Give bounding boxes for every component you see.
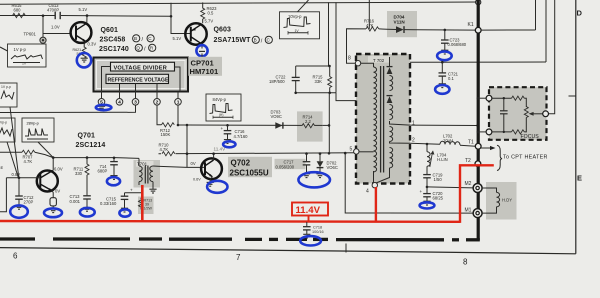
svg-text:4700P: 4700P [47,8,59,13]
svg-text:5.1V: 5.1V [173,36,182,41]
focus pin lower [486,129,492,135]
blue ellipse C721 ground [435,85,449,94]
capacitor C717 [275,159,306,169]
svg-text:2SC1055U: 2SC1055U [230,168,269,177]
svg-text:Q701: Q701 [78,133,96,140]
svg-text:D: D [577,9,583,18]
waveform box 28Vp-p [22,118,54,142]
T702 pin 5 lead [359,151,374,153]
resistor R716 [366,27,379,31]
svg-text:0.1: 0.1 [448,76,454,81]
wire pin3 to left edge [0,105,136,112]
label CP701 HM7101 [188,57,222,76]
resistor R714 [297,111,323,141]
svg-text:270P: 270P [24,199,34,204]
T702 pin 4 lead [373,171,375,183]
waveform box 10Vp-p [280,12,320,39]
svg-text:1: 1 [177,100,180,106]
svg-text:(H): (H) [219,113,223,117]
svg-text:M1: M1 [465,207,472,213]
T702 core [380,66,382,173]
wire top supply rail [0,2,478,4]
svg-text:H.DY: H.DY [502,197,512,202]
T702 pin 8 [355,61,360,66]
node Q601 collector tap [86,14,89,17]
red trace T702 pin4 drop [375,187,377,222]
bracket CPT heater [497,145,502,170]
T702 rectifier diode upper [387,66,393,68]
svg-text:5.7V: 5.7V [205,18,214,23]
blue ellipse Q701 emitter ground [44,208,62,217]
svg-text:B: B [134,36,137,41]
T702 secondary winding A [390,76,393,91]
pin 4 [116,99,123,106]
wire tap2 with L702 [410,142,440,145]
svg-text:0.5: 0.5 [208,11,214,16]
transistor Q601 [71,16,92,48]
transistor Q603 [185,23,206,48]
wire vertical from top into T702 area [335,2,337,93]
wire vertical feed at R716 [368,0,370,29]
svg-text:Q: Q [136,46,140,51]
svg-text:E: E [577,174,582,183]
svg-text:Q601: Q601 [101,27,119,34]
pin 1 [175,99,182,106]
resistor R621 [82,47,86,58]
svg-text:1/2W: 1/2W [144,207,153,211]
svg-text:E: E [1,165,4,170]
T702 pin 4 [372,183,377,188]
svg-text:T 702: T 702 [373,58,385,63]
wire pin stems [102,92,179,99]
blue circle Q601 emitter ground [77,53,91,67]
red trace T701 drop [141,185,144,221]
resistor R715 [329,66,331,77]
wire pointer from box to Q701 base [10,107,19,178]
thick ground bus vertical [477,0,480,240]
capacitor C613 [55,12,60,19]
svg-text:4.7K: 4.7K [24,159,33,164]
svg-text:10µH: 10µH [443,138,453,143]
wire M1 return [345,153,473,213]
T702 secondary winding D [390,148,393,168]
test point TP601 [40,37,46,43]
svg-text:4: 4 [366,188,369,194]
wire upper diode rail [187,124,297,126]
resistor R707 [0,151,22,153]
svg-text:4.7/160: 4.7/160 [234,134,249,139]
waveform box 84Vp-p [206,94,241,121]
svg-text:0.001: 0.001 [70,199,81,204]
wire vertical heater rail riser [545,0,547,62]
wire pin2 via R712 [157,105,162,125]
capacitor C718 [306,222,308,226]
blue ellipse pin5 ground [96,105,112,110]
capacitor C712 [18,178,20,196]
wire pin8 to D704 rail [347,29,367,63]
blue ellipse C715 ground [119,209,130,216]
waveform box small left y118 [0,118,15,142]
waveform box small left y83 [0,83,17,107]
blue ellipse Q702 emitter ground [207,181,227,193]
wire pointer 28Vp-p to collector node [38,142,53,157]
voltage divider block CP701 [94,58,189,92]
node junction TP601 tap [42,14,45,17]
wire bus to focus pin lower [480,131,486,133]
diode D703 [271,110,283,129]
svg-text:10Vp-p: 10Vp-p [288,14,302,19]
wire vertical above K1 wire [535,0,537,30]
svg-text:REFFERENCE VOLTAGE: REFFERENCE VOLTAGE [108,78,169,84]
svg-text:+: + [221,126,224,131]
pin 5 [98,99,105,106]
wire heater tap rail [410,61,546,63]
svg-text:K1: K1 [468,22,474,28]
wire network bottom [296,92,336,94]
svg-text:68/25: 68/25 [433,195,444,200]
red label box 11.4V [292,203,328,216]
wire TP601 vertical [42,16,44,37]
wire tap1 to bus [410,124,477,126]
svg-text:1V: 1V [295,29,300,33]
node M1 [473,209,482,218]
wire collector rail to T702 pin5 [159,153,357,154]
svg-text:6: 6 [13,252,18,261]
frame tick [569,95,576,97]
capacitor C720 [426,187,428,193]
capacitor C721 [441,61,444,64]
svg-text:8: 8 [463,258,468,267]
node T1 [475,143,481,149]
capacitor C713 [83,196,91,199]
svg-text:0V: 0V [191,161,196,166]
resistor R711 [86,156,89,159]
svg-text:0V: 0V [55,189,60,194]
transformer T701 [134,158,188,193]
wire junction column to pin5 rail [328,93,330,154]
transformer T702 flyback [356,54,410,184]
wire pointer second [7,142,18,178]
blue circle Q603 collector mark [199,50,205,52]
red stub 11.4V box [308,216,310,222]
diode D704 [387,11,417,37]
svg-text:11.4V: 11.4V [214,147,227,152]
svg-text:1V: 1V [22,61,27,65]
svg-text:M2: M2 [465,181,472,187]
svg-text:0.068/680: 0.068/680 [448,42,467,47]
transistor Q701 [37,158,58,198]
svg-text:680: 680 [14,8,22,13]
wire pin junction vertical to Q702 base [186,125,188,167]
wire K1 to right [481,29,536,31]
wire pointer from 10Vp-p box [298,0,309,12]
svg-text:VO6C: VO6C [327,165,338,170]
frame tick bottom [345,244,347,253]
wire Q603 base feed vertical [171,3,191,34]
blue ellipse C712 ground [10,205,28,217]
blue ellipse C714 ground [107,177,120,185]
transistor Q702 [201,152,222,182]
svg-text:Q603: Q603 [214,27,232,34]
T702 pin 5 [354,149,359,154]
svg-text:33K: 33K [315,79,323,84]
ground R621 [81,58,88,62]
svg-text:5: 5 [350,146,353,152]
capacitor C716 [226,124,229,127]
svg-text:H.LIN: H.LIN [437,157,448,162]
svg-text:V11N: V11N [394,19,406,24]
resistor R710 [161,151,176,157]
diode D702 [319,152,322,155]
svg-text:150K: 150K [161,132,171,137]
capacitor C714 [113,157,116,160]
svg-text:2: 2 [412,138,415,144]
svg-text:T2: T2 [465,158,471,164]
focus potentiometer [524,107,528,118]
capacitor C723 [444,29,447,32]
svg-text:4.7K: 4.7K [160,147,169,152]
svg-text:1V p-p: 1V p-p [1,85,11,89]
svg-text:HM7101: HM7101 [190,67,219,76]
wire left edge drop [0,178,6,212]
svg-text:8: 8 [348,56,351,62]
frame border right [575,0,577,254]
red trace heater riser [460,165,494,223]
focus pin upper [486,95,492,101]
T702 secondary top lead [389,57,391,67]
capacitor C715 [125,192,143,194]
svg-text:2SC458: 2SC458 [100,37,126,44]
svg-text:To CPT HEATER: To CPT HEATER [503,155,548,161]
svg-text:47K: 47K [366,23,374,28]
svg-text:5.1V: 5.1V [79,7,88,12]
capacitor C719 [426,166,428,174]
svg-text:0.33/160: 0.33/160 [100,201,117,206]
wire pointer to waveform box [0,47,8,51]
node top of bus [476,0,481,5]
wire 5.1V rail [0,15,55,17]
T702 pin 8 lead [361,63,374,67]
focus wiper arrow [532,113,544,115]
svg-text:0.3V: 0.3V [88,42,97,47]
svg-text:VOLTAGE DIVIDER: VOLTAGE DIVIDER [114,65,167,71]
svg-text:18P/500: 18P/500 [269,79,285,84]
red trace horizontal bus 11.4V [0,220,460,223]
svg-text:0.8V: 0.8V [12,172,21,177]
T702 tap 2 [390,142,411,144]
focus internal wires [492,97,512,99]
svg-text:2SA715WT: 2SA715WT [214,37,252,44]
svg-text:2: 2 [156,100,159,106]
svg-text:1V p-p: 1V p-p [14,47,27,52]
wire bus to focus pin upper [480,97,486,99]
resistor R712 [162,123,175,127]
capacitor C722 and resistor R715 network [328,2,330,66]
inductor L702 [440,141,460,145]
blue ellipse C723 ground [437,51,452,60]
node K1 [475,27,481,33]
svg-text:6.0V: 6.0V [54,167,63,172]
wire D704 to K1 [417,29,475,31]
blue ellipse C713 ground [80,208,95,217]
svg-text:330: 330 [75,171,83,176]
focus wiper pin [543,111,549,117]
svg-text:2SC1740: 2SC1740 [99,46,129,53]
T702 rectifier diode lower [387,95,393,97]
T702 primary winding [374,67,377,172]
box REFFERENCE VOLTAGE [106,74,169,83]
inductor L704 [426,143,429,146]
wire pin1 down [177,105,179,125]
svg-text:28Vp-p: 28Vp-p [27,121,39,125]
blue ellipse C720 ground [420,202,435,208]
resistor R708 box [50,198,56,206]
pin 2 [154,99,161,106]
thick dashed ground bus horizontal [0,237,480,241]
svg-text:0.056/200: 0.056/200 [276,164,295,169]
svg-text:FOCUS: FOCUS [521,134,540,140]
svg-text:3: 3 [134,100,137,106]
svg-text:100/16: 100/16 [312,230,324,234]
svg-text:7: 7 [236,253,241,262]
focus resistor top [512,96,525,100]
resistor R713 [138,197,154,215]
svg-text:VO9C: VO9C [271,114,282,119]
svg-text:1.0V: 1.0V [51,25,60,30]
wire Q701 base [6,177,40,179]
H.DY deflection yoke [482,182,516,220]
T702 secondary winding B [390,105,393,120]
svg-text:B: B [254,38,257,43]
svg-text:+: + [420,189,423,194]
svg-text:11.4V: 11.4V [296,205,321,216]
svg-text:T1: T1 [468,140,474,146]
resistor R623 [202,2,204,8]
node T2 [475,161,481,167]
waveform box 1V p-p [8,44,47,67]
svg-text:84Vp-p: 84Vp-p [213,97,227,102]
pin 3 [132,99,139,106]
svg-text:1/50: 1/50 [434,177,443,182]
svg-text:Q702: Q702 [231,159,251,168]
wire junction to M2 [426,186,429,189]
resistor R615 [13,13,26,17]
T702 secondary winding C [390,127,393,142]
svg-text:Vp-p: Vp-p [0,120,7,124]
label Q702 part number [228,157,272,177]
FOCUS block [477,87,547,140]
wire focus pot feed [548,0,555,114]
focus capacitor [503,98,505,110]
wire Q601 base [43,33,71,35]
svg-text:+: + [130,188,133,193]
blue ellipse C716 ground [223,141,235,147]
blue ellipse C717 D702 grounds [298,172,330,187]
wire stubs inside block [102,67,111,92]
frame border bottom [0,248,576,254]
svg-text:680P: 680P [98,169,108,174]
box VOLTAGE DIVIDER [111,62,175,71]
node M2 [473,184,482,193]
svg-text:4: 4 [118,100,121,106]
focus resistor bottom [512,130,525,134]
svg-text:TP601: TP601 [24,32,37,37]
wire Q701 collector rail [53,157,139,160]
capacitor C722 [292,77,300,80]
T702 tap 1 [390,121,411,125]
arrow to CPT heater [481,147,490,149]
svg-text:2SC1214: 2SC1214 [76,142,106,149]
svg-text:0.6V: 0.6V [193,177,201,181]
blue ellipse C718 ground [300,236,321,245]
